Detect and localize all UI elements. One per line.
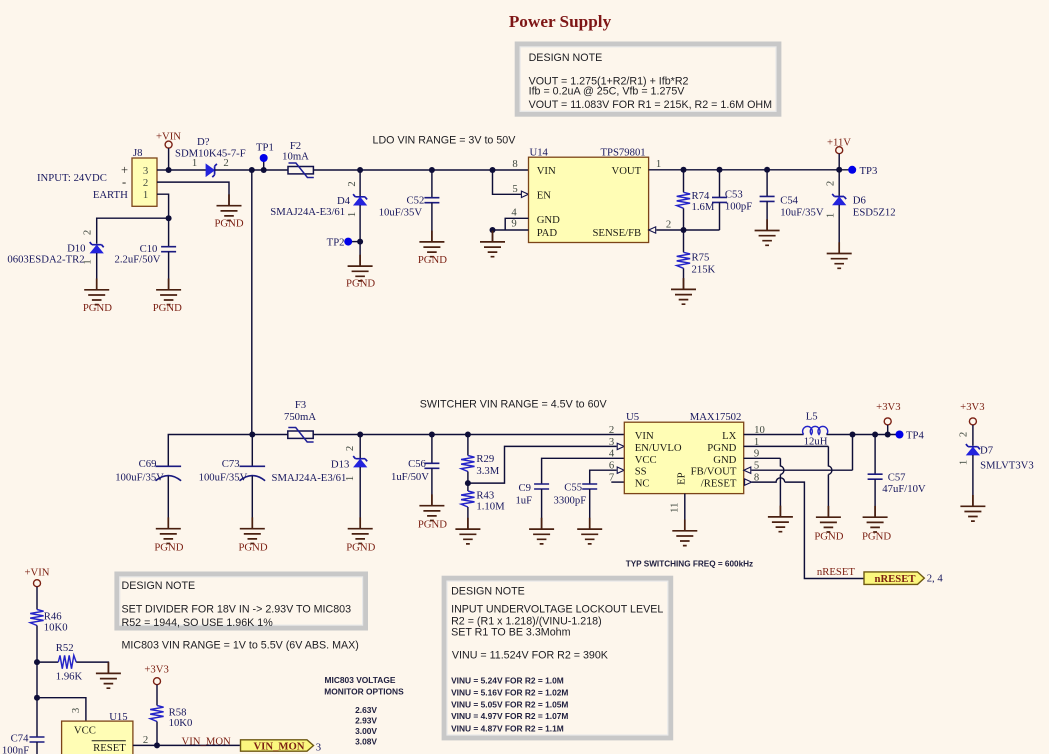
svg-text:1: 1	[82, 259, 94, 264]
svg-text:2: 2	[958, 432, 970, 437]
svg-text:2.93V: 2.93V	[355, 715, 377, 725]
svg-text:RESET: RESET	[93, 742, 126, 754]
pin arrow SENSE/FB	[649, 227, 656, 233]
ground at C54	[755, 219, 780, 245]
pin arrow EN U14	[521, 191, 528, 197]
ground PGND at C56	[418, 494, 447, 530]
svg-text:TP3: TP3	[860, 165, 878, 177]
svg-text:3300pF: 3300pF	[554, 495, 587, 507]
svg-text:J8: J8	[133, 147, 143, 159]
svg-text:VINU = 5.05V FOR R2 = 1.05M: VINU = 5.05V FOR R2 = 1.05M	[451, 700, 568, 710]
svg-text:TP1: TP1	[256, 142, 274, 154]
wire switcher rail left	[168, 435, 287, 467]
node junction R74	[681, 167, 687, 173]
wire to D10	[97, 218, 169, 244]
svg-text:100uF/35V: 100uF/35V	[115, 471, 164, 483]
node junction FB tap	[850, 432, 856, 438]
svg-text:VINU = 11.524V FOR R2 = 390K: VINU = 11.524V FOR R2 = 390K	[452, 650, 609, 662]
svg-text:C74: C74	[11, 732, 29, 744]
svg-text:SMAJ24A-E3/61: SMAJ24A-E3/61	[270, 206, 345, 218]
node junction R52 tap	[34, 659, 40, 665]
node junction C56	[429, 432, 435, 438]
power port +VIN bottom	[24, 567, 49, 610]
wire to U15 VCC	[37, 698, 86, 721]
ground at R43	[455, 518, 480, 544]
pin arrow EN/UVLO	[617, 443, 624, 449]
svg-text:VIN_MON: VIN_MON	[182, 736, 232, 748]
wire EN/UVLO net	[468, 446, 617, 483]
svg-text:+11V: +11V	[827, 136, 851, 148]
ground at U14	[480, 231, 505, 257]
svg-text:TPS79801: TPS79801	[601, 147, 646, 159]
svg-text:-: -	[122, 175, 126, 189]
svg-text:PGND: PGND	[154, 541, 183, 553]
design note box 3	[444, 578, 671, 738]
svg-text:MONITOR OPTIONS: MONITOR OPTIONS	[324, 686, 404, 696]
svg-text:TP2: TP2	[327, 236, 345, 248]
wire LX to L5	[744, 434, 804, 436]
wire D? to F2	[215, 169, 288, 171]
svg-text:2: 2	[346, 181, 358, 186]
regulator U5 MAX17502	[609, 411, 765, 494]
svg-text:VOUT = 11.083V FOR R1 = 215K,: VOUT = 11.083V FOR R1 = 215K, R2 = 1.6M …	[529, 99, 773, 111]
svg-text:INPUT UNDERVOLTAGE LOCKOUT LEV: INPUT UNDERVOLTAGE LOCKOUT LEVEL	[451, 603, 663, 615]
pin arrow FB/VOUT	[744, 467, 751, 473]
diode D? SDM10K45-7-F	[175, 136, 246, 177]
svg-text:SMLVT3V3: SMLVT3V3	[980, 460, 1034, 472]
resistor R58	[150, 706, 192, 746]
svg-text:PGND: PGND	[214, 218, 243, 230]
svg-text:TYP SWITCHING FREQ = 600kHz: TYP SWITCHING FREQ = 600kHz	[626, 559, 753, 568]
connector J8	[121, 147, 157, 207]
wire EN branch	[493, 170, 522, 194]
svg-text:0603ESDA2-TR2: 0603ESDA2-TR2	[7, 254, 84, 266]
wire to D?	[169, 169, 206, 171]
svg-text:1uF: 1uF	[515, 495, 532, 507]
wire divider down	[36, 662, 38, 698]
svg-text:FB/VOUT: FB/VOUT	[691, 466, 737, 478]
regulator U14 TPS79801	[511, 147, 671, 243]
svg-text:C54: C54	[780, 195, 798, 207]
capacitor C57	[868, 435, 926, 518]
capacitor C56	[391, 435, 439, 506]
ground GND pin9	[768, 506, 793, 532]
port VIN_MON	[241, 740, 314, 753]
wire RESET net	[133, 744, 240, 746]
node junction sense	[681, 227, 687, 233]
svg-text:C73: C73	[222, 458, 240, 470]
ground PGND at C69	[154, 517, 183, 553]
svg-text:2.63V: 2.63V	[355, 705, 377, 715]
svg-text:3: 3	[143, 165, 148, 177]
svg-text:EARTH: EARTH	[93, 189, 128, 201]
power port +3V3 bottom	[144, 664, 168, 706]
svg-text:R46: R46	[44, 610, 62, 622]
svg-text:3: 3	[609, 436, 614, 448]
node junction VCC tap	[34, 695, 40, 701]
svg-text:VINU = 5.24V FOR R2 = 1.0M: VINU = 5.24V FOR R2 = 1.0M	[451, 676, 564, 686]
svg-text:8: 8	[512, 158, 517, 170]
svg-text:2: 2	[82, 230, 94, 235]
supervisor U15 MIC803	[62, 711, 149, 754]
svg-text:+3V3: +3V3	[960, 401, 984, 413]
svg-text:D13: D13	[331, 458, 349, 470]
svg-text:EP: EP	[676, 472, 688, 485]
svg-text:MIC803 VIN RANGE = 1V to 5.5V: MIC803 VIN RANGE = 1V to 5.5V (6V ABS. M…	[122, 640, 359, 652]
node junction U14 pad	[490, 227, 496, 233]
wire D4 to ground	[359, 205, 361, 266]
svg-text:VOUT: VOUT	[612, 165, 642, 177]
svg-text:2: 2	[223, 157, 228, 169]
svg-text:U14: U14	[530, 147, 549, 159]
svg-text:PAD: PAD	[537, 227, 558, 239]
wire FB/VOUT net	[751, 435, 852, 471]
node junction R58	[154, 742, 160, 748]
svg-text:Ifb = 0.2uA @ 25C, Vfb = 1.275: Ifb = 0.2uA @ 25C, Vfb = 1.275V	[529, 85, 686, 97]
svg-text:750mA: 750mA	[284, 411, 316, 423]
test point TP1	[256, 142, 274, 173]
pin arrow /RESET	[745, 479, 752, 485]
svg-text:NC: NC	[635, 478, 650, 490]
svg-text:2: 2	[666, 218, 671, 230]
svg-text:100nF: 100nF	[2, 744, 29, 754]
svg-text:PGND: PGND	[83, 302, 112, 314]
svg-text:2: 2	[344, 446, 356, 451]
svg-text:D7: D7	[980, 445, 994, 457]
svg-text:EN/UVLO: EN/UVLO	[635, 442, 682, 454]
svg-text:SS: SS	[635, 466, 647, 478]
svg-text:TP4: TP4	[906, 429, 924, 441]
svg-text:SENSE/FB: SENSE/FB	[592, 227, 641, 239]
svg-text:DESIGN NOTE: DESIGN NOTE	[451, 586, 525, 598]
inductor L5	[803, 410, 828, 447]
svg-text:VIN: VIN	[537, 165, 556, 177]
node junction long vertical	[249, 167, 255, 173]
wire EP pad	[684, 494, 686, 531]
resistor R74	[677, 170, 715, 230]
resistor R29	[461, 435, 500, 484]
port nRESET	[864, 572, 924, 585]
diode D6 ESD5Z12	[825, 170, 896, 254]
wire VOUT rail	[649, 169, 849, 171]
node junction D13	[357, 432, 363, 438]
svg-text:2: 2	[143, 734, 148, 746]
svg-text:R29: R29	[476, 453, 494, 465]
svg-text:PGND: PGND	[418, 519, 447, 531]
capacitor C55	[554, 470, 617, 529]
svg-text:100uF/35V: 100uF/35V	[199, 471, 248, 483]
node junction C54	[764, 167, 770, 173]
wire F2 to U14	[314, 169, 529, 171]
resistor R52	[37, 642, 108, 683]
svg-text:PGND: PGND	[862, 531, 891, 543]
wire switcher rail right	[313, 434, 624, 436]
svg-text:3.00V: 3.00V	[355, 726, 377, 736]
svg-text:R52: R52	[56, 642, 74, 654]
svg-text:2: 2	[609, 424, 614, 436]
svg-text:1.6M: 1.6M	[692, 201, 715, 213]
svg-text:C9: C9	[519, 482, 531, 494]
svg-text:1.96K: 1.96K	[56, 671, 83, 683]
annotation MIC803 VOLTAGE MONITOR OPTIONS	[324, 675, 404, 746]
wire SENSE/FB net	[656, 229, 719, 231]
svg-text:DESIGN NOTE: DESIGN NOTE	[529, 52, 603, 64]
svg-text:MAX17502: MAX17502	[690, 411, 742, 423]
node junction C53	[717, 167, 723, 173]
ground PGND at J8 pin2	[214, 194, 243, 229]
diode D4 SMAJ24A-E3/61	[270, 181, 367, 218]
svg-text:VCC: VCC	[635, 454, 657, 466]
node junction C52	[429, 167, 435, 173]
wire down to D4	[359, 170, 361, 196]
svg-text:2: 2	[143, 177, 148, 189]
node junction R29	[465, 432, 471, 438]
svg-text:1uF/50V: 1uF/50V	[391, 471, 429, 483]
svg-text:LDO VIN RANGE = 3V to 50V: LDO VIN RANGE = 3V to 50V	[373, 134, 517, 146]
svg-text:C56: C56	[408, 458, 426, 470]
svg-text:PGND: PGND	[238, 541, 267, 553]
ground PGND at C52	[418, 231, 447, 267]
capacitor C52	[379, 170, 440, 242]
ground at EP	[672, 520, 697, 546]
wire NC stub	[611, 481, 624, 483]
ground PGND pin1	[814, 506, 843, 543]
node junction C73	[249, 432, 255, 438]
svg-text:R43: R43	[476, 489, 494, 501]
svg-text:INPUT: 24VDC: INPUT: 24VDC	[37, 172, 107, 184]
svg-text:1: 1	[192, 157, 197, 169]
svg-text:10K0: 10K0	[44, 622, 68, 634]
wire L5 to TP4	[826, 434, 896, 436]
power port +3V3 switcher	[876, 401, 900, 435]
svg-text:SWITCHER VIN RANGE = 4.5V to 6: SWITCHER VIN RANGE = 4.5V to 60V	[420, 399, 608, 411]
svg-text:3: 3	[70, 708, 82, 713]
svg-text:10mA: 10mA	[282, 151, 309, 163]
wire J8 pin3	[157, 169, 169, 171]
capacitor C53	[712, 170, 752, 230]
diode D13 SMAJ24A-E3/61	[272, 435, 368, 529]
svg-text:LX: LX	[722, 430, 737, 442]
ground PGND at C73	[238, 517, 267, 553]
svg-text:100pF: 100pF	[725, 201, 752, 213]
svg-text:3.3M: 3.3M	[476, 465, 499, 477]
wire U14 GND/PAD	[493, 218, 529, 242]
svg-text:2.2uF/50V: 2.2uF/50V	[115, 254, 161, 266]
svg-text:3: 3	[316, 741, 321, 753]
ground at R52	[96, 662, 121, 688]
svg-text:6: 6	[609, 460, 615, 472]
svg-text:C52: C52	[406, 195, 424, 207]
svg-text:PGND: PGND	[814, 531, 843, 543]
svg-text:D6: D6	[853, 195, 867, 207]
test point TP4	[896, 429, 925, 441]
design note box 1	[517, 44, 779, 114]
svg-text:47uF/10V: 47uF/10V	[882, 483, 926, 495]
svg-text:+3V3: +3V3	[876, 401, 900, 413]
capacitor C54	[760, 170, 824, 231]
svg-text:Power Supply: Power Supply	[509, 12, 612, 31]
svg-text:EN: EN	[537, 190, 552, 202]
svg-text:11: 11	[669, 503, 681, 513]
capacitor C9	[515, 458, 624, 529]
svg-text:10uF/35V: 10uF/35V	[780, 207, 824, 219]
wire J8 pin2 to ground	[157, 182, 229, 206]
svg-text:SET DIVIDER FOR 18V IN -> 2.93: SET DIVIDER FOR 18V IN -> 2.93V TO MIC80…	[122, 604, 352, 616]
svg-text:1: 1	[143, 189, 148, 201]
svg-text:SDM10K45-7-F: SDM10K45-7-F	[175, 148, 246, 160]
svg-text:/RESET: /RESET	[701, 478, 737, 490]
resistor R46	[30, 610, 67, 663]
wire long vertical to switcher	[251, 170, 253, 435]
svg-text:SET R1 TO BE 3.3Mohm: SET R1 TO BE 3.3Mohm	[451, 626, 570, 638]
svg-text:R52 = 1944, SO USE 1.96K 1%: R52 = 1944, SO USE 1.96K 1%	[122, 617, 274, 629]
svg-text:GND: GND	[713, 454, 736, 466]
ground at R75	[671, 278, 696, 304]
svg-text:+VIN: +VIN	[156, 131, 181, 143]
svg-text:ESD5Z12: ESD5Z12	[853, 207, 896, 219]
svg-text:U15: U15	[109, 711, 127, 723]
svg-text:2: 2	[825, 181, 837, 186]
node junction C57	[872, 432, 878, 438]
ground PGND at D13	[346, 517, 375, 553]
svg-text:VIN_MON: VIN_MON	[253, 741, 304, 753]
svg-text:PGND: PGND	[346, 541, 375, 553]
svg-text:VINU = 5.16V FOR R2 = 1.02M: VINU = 5.16V FOR R2 = 1.02M	[451, 688, 568, 698]
capacitor C10	[115, 218, 177, 290]
svg-text:1: 1	[825, 213, 837, 218]
svg-text:L5: L5	[806, 410, 818, 422]
svg-text:7: 7	[609, 472, 615, 484]
svg-text:nRESET: nRESET	[875, 573, 916, 585]
resistor R43	[461, 483, 505, 529]
ground at D6	[827, 242, 852, 268]
svg-text:1: 1	[346, 212, 358, 217]
svg-text:GND: GND	[537, 214, 560, 226]
svg-text:F3: F3	[295, 399, 306, 411]
resistor R75	[677, 230, 716, 289]
svg-text:C55: C55	[564, 482, 582, 494]
svg-text:D?: D?	[197, 136, 210, 148]
ground PGND at D10	[83, 279, 112, 314]
svg-text:1: 1	[958, 460, 970, 465]
node junction +3V3	[885, 432, 891, 438]
ground at C9	[529, 518, 554, 544]
svg-text:9: 9	[511, 217, 516, 229]
svg-text:215K: 215K	[692, 263, 716, 275]
svg-text:4: 4	[609, 448, 615, 460]
svg-text:VIN: VIN	[635, 430, 654, 442]
capacitor C74	[2, 698, 45, 754]
svg-text:C57: C57	[888, 472, 906, 484]
node junction D4	[357, 167, 363, 173]
diode D7 SMLVT3V3	[958, 432, 1034, 506]
svg-text:5: 5	[512, 183, 517, 195]
svg-text:1: 1	[656, 158, 661, 170]
svg-text:SMAJ24A-E3/61: SMAJ24A-E3/61	[272, 472, 347, 484]
wire J8 pin1 down	[157, 194, 169, 218]
svg-text:R75: R75	[692, 252, 710, 264]
capacitor C69	[115, 458, 181, 529]
test point TP3	[848, 165, 877, 177]
power port +VIN	[156, 131, 181, 171]
svg-text:1.10M: 1.10M	[476, 501, 505, 513]
diode D10 0603ESDA2-TR2	[7, 230, 103, 290]
node junction J8 pin3	[166, 167, 172, 173]
svg-text:U5: U5	[626, 411, 639, 423]
svg-text:C69: C69	[139, 458, 157, 470]
node junction +11V	[836, 167, 842, 173]
wire GND pin9	[744, 458, 784, 517]
ground PGND at D4	[346, 255, 375, 290]
node junction EN branch	[490, 167, 496, 173]
node junction divider	[465, 480, 471, 486]
svg-text:1: 1	[344, 476, 356, 481]
svg-text:PGND: PGND	[418, 254, 447, 266]
svg-text:PGND: PGND	[707, 442, 736, 454]
wire /RESET net	[752, 478, 864, 579]
svg-text:C53: C53	[725, 188, 743, 200]
svg-text:DESIGN NOTE: DESIGN NOTE	[122, 580, 196, 592]
svg-text:3.08V: 3.08V	[355, 736, 377, 746]
wire PGND pin1	[744, 446, 832, 517]
power port +11V	[827, 136, 851, 170]
svg-text:MIC803 VOLTAGE: MIC803 VOLTAGE	[325, 675, 396, 685]
svg-text:nRESET: nRESET	[817, 566, 855, 578]
ground at C55	[577, 518, 602, 544]
svg-text:VINU = 4.97V FOR R2 = 1.07M: VINU = 4.97V FOR R2 = 1.07M	[451, 711, 568, 721]
svg-text:10K0: 10K0	[169, 717, 193, 729]
svg-text:VCC: VCC	[74, 724, 96, 736]
svg-text:PGND: PGND	[346, 277, 375, 289]
power port +3V3 right	[960, 401, 984, 446]
ground PGND at C10	[153, 279, 182, 314]
test point TP2	[327, 236, 363, 248]
design note box 2	[117, 574, 366, 629]
svg-text:2, 4: 2, 4	[927, 572, 944, 584]
capacitor C73	[199, 435, 266, 529]
ground at D7	[960, 495, 985, 521]
svg-text:PGND: PGND	[153, 302, 182, 314]
node junction pin1 net	[166, 215, 172, 221]
ground PGND at C57	[862, 506, 891, 543]
svg-text:+VIN: +VIN	[24, 567, 49, 579]
svg-text:+3V3: +3V3	[144, 664, 168, 676]
fuse F2	[282, 140, 314, 178]
svg-text:10uF/35V: 10uF/35V	[379, 206, 423, 218]
pin arrow SS	[617, 467, 624, 473]
fuse F3	[284, 399, 316, 442]
svg-text:VINU = 4.87V FOR R2 = 1.1M: VINU = 4.87V FOR R2 = 1.1M	[451, 723, 564, 733]
